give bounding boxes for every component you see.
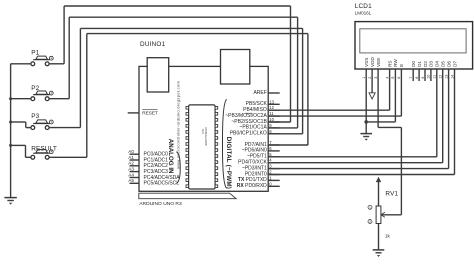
svg-text:13: 13	[269, 99, 274, 104]
svg-text:D4: D4	[435, 61, 440, 67]
svg-text:RV1: RV1	[385, 190, 398, 197]
svg-text:D6: D6	[446, 61, 451, 67]
svg-text:1k: 1k	[385, 234, 391, 239]
svg-text:A0: A0	[128, 149, 134, 154]
svg-text:14: 14	[450, 75, 454, 79]
svg-text:1: 1	[362, 77, 366, 79]
svg-text:VDD: VDD	[370, 57, 375, 67]
svg-text:D1: D1	[417, 61, 422, 67]
svg-text:ARDUINO UNO R3: ARDUINO UNO R3	[139, 201, 182, 207]
svg-text:D0: D0	[411, 61, 416, 67]
svg-text:1: 1	[369, 206, 371, 210]
svg-text:10: 10	[269, 117, 274, 122]
svg-text:P1: P1	[31, 49, 39, 56]
svg-text:LM016L: LM016L	[355, 11, 372, 16]
svg-text:7: 7	[409, 77, 413, 79]
svg-text:11: 11	[433, 75, 437, 79]
svg-text:A1: A1	[128, 155, 134, 160]
svg-text:13: 13	[444, 75, 448, 79]
svg-text:D5: D5	[441, 61, 446, 67]
svg-text:DIGITAL (~PWM): DIGITAL (~PWM)	[225, 137, 232, 189]
svg-text:P2: P2	[31, 85, 39, 92]
svg-text:A4: A4	[128, 172, 134, 177]
svg-text:LCD1: LCD1	[355, 3, 372, 10]
svg-text:9: 9	[421, 77, 425, 79]
svg-text:ATMEGA328P: ATMEGA328P	[204, 127, 208, 146]
svg-text:11: 11	[269, 111, 274, 116]
svg-text:5: 5	[391, 77, 395, 79]
svg-text:RESET: RESET	[142, 111, 158, 116]
svg-text:ANALOG IN: ANALOG IN	[167, 139, 174, 174]
svg-text:DUINO1: DUINO1	[140, 41, 166, 48]
svg-text:AREF: AREF	[253, 90, 266, 96]
svg-text:4: 4	[385, 77, 389, 79]
svg-text:RX PD0/RXD: RX PD0/RXD	[237, 183, 267, 189]
svg-text:E: E	[399, 64, 404, 67]
svg-text:A2: A2	[128, 161, 134, 166]
svg-text:RESULT: RESULT	[31, 145, 57, 152]
svg-text:A3: A3	[128, 166, 134, 171]
svg-text:RW: RW	[393, 59, 398, 67]
svg-text:A5: A5	[128, 178, 134, 183]
svg-text:VSS: VSS	[364, 58, 369, 67]
svg-text:PC5/ADC5/SCL: PC5/ADC5/SCL	[144, 181, 180, 187]
svg-text:D2: D2	[423, 61, 428, 67]
svg-text:8: 8	[415, 77, 419, 79]
svg-text:10: 10	[427, 75, 431, 79]
svg-text:2: 2	[369, 220, 371, 224]
svg-text:www.microcontroller-arduino.bl: www.microcontroller-arduino.blogspot.com	[176, 80, 181, 169]
svg-text:6: 6	[397, 77, 401, 79]
svg-text:D3: D3	[429, 61, 434, 67]
svg-text:3: 3	[374, 77, 378, 79]
svg-text:2: 2	[368, 77, 372, 79]
svg-text:PB0/ICP1/CLKO: PB0/ICP1/CLKO	[230, 131, 267, 137]
svg-text:D7: D7	[452, 61, 457, 67]
svg-text:P3: P3	[31, 113, 39, 120]
svg-text:12: 12	[269, 105, 274, 110]
svg-text:RS: RS	[387, 61, 392, 67]
svg-text:12: 12	[439, 75, 443, 79]
svg-text:VEE: VEE	[376, 58, 381, 67]
